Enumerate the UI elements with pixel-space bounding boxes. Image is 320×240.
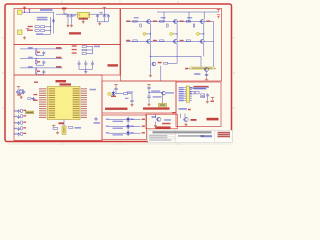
title block dividers bbox=[148, 130, 215, 143]
junction key row 3 bbox=[36, 67, 37, 68]
VCC right stem bbox=[103, 7, 105, 14]
designator row1 cell3 (red) bbox=[180, 21, 184, 22]
red text left of strip (red) bbox=[185, 68, 188, 70]
crystal top link bbox=[18, 89, 24, 91]
Q7 drop bbox=[162, 95, 164, 103]
title red text box row3 bbox=[218, 136, 231, 138]
red text reset 2 (red) bbox=[33, 100, 37, 101]
designator right row 1 (red) bbox=[72, 45, 77, 46]
key row 1 wire bbox=[20, 48, 63, 50]
junction row1 bbox=[50, 26, 51, 27]
strip wire bbox=[188, 67, 216, 69]
block label 数码显示 (red) bbox=[207, 118, 219, 121]
ground crystal bbox=[20, 96, 23, 99]
capacitor brow5 bbox=[17, 132, 20, 136]
IR emit drop2 bbox=[131, 94, 133, 101]
res low wire bbox=[168, 62, 177, 64]
ground caps right bbox=[98, 22, 101, 25]
IR emit wire bbox=[115, 93, 123, 95]
net label brow4 bbox=[14, 128, 17, 129]
designator row1 cell2 (red) bbox=[153, 21, 157, 22]
net label brow3 bbox=[14, 122, 17, 123]
net label KEY3 bbox=[28, 66, 33, 67]
key 2 stem bbox=[35, 59, 37, 61]
C3 lower stem bbox=[71, 18, 73, 23]
title blue text bbox=[201, 135, 213, 137]
capacitor brow4 bbox=[17, 127, 20, 131]
vertical cell2 a bbox=[176, 24, 178, 40]
capacitor C5 bbox=[103, 14, 106, 18]
key switch 2 bbox=[35, 61, 37, 64]
key cap 2 bbox=[84, 62, 87, 66]
connector P1 (DC input) bbox=[18, 10, 23, 14]
designator row2 cell3 (red) bbox=[180, 40, 184, 41]
key cap 3 stem bbox=[91, 66, 93, 70]
label U1 STC89C52 (red) bbox=[60, 83, 72, 85]
title main text 2 bbox=[178, 135, 204, 137]
emitter resistor cell2 bbox=[167, 24, 169, 27]
key-input block outline bbox=[14, 45, 120, 76]
key 2 stem2 bbox=[35, 64, 37, 65]
red dash left of label (red) bbox=[34, 82, 38, 83]
label AMS1117-3.3 (red) bbox=[79, 18, 89, 20]
key cap 3 bbox=[91, 62, 94, 66]
caps bottom rail bbox=[79, 68, 92, 70]
capacitor brow1 bbox=[17, 109, 20, 113]
designator brow5 (red) bbox=[23, 133, 26, 134]
LED D4 bbox=[126, 117, 129, 123]
IR recv stem 2 bbox=[148, 97, 150, 103]
yellow dot cell3 bbox=[196, 32, 199, 35]
net label VIN bbox=[40, 9, 53, 11]
designator row1 cell1 (red) bbox=[126, 21, 130, 22]
designator brow2 (red) bbox=[23, 115, 26, 116]
power-supply block outline bbox=[14, 9, 120, 45]
caps top stub 3 bbox=[91, 60, 93, 61]
C2 lower stem bbox=[67, 18, 69, 23]
MCU inner right pin names bbox=[73, 88, 80, 118]
capacitor C8 bbox=[16, 90, 19, 94]
ground under cell1 vertical bbox=[149, 74, 152, 77]
designator key 2 (red) bbox=[37, 61, 40, 62]
key cap 1 bbox=[78, 62, 81, 66]
capacitor C4 bbox=[96, 14, 99, 18]
buzzer block label (red) bbox=[156, 126, 171, 128]
highlighted ref IR bbox=[159, 103, 167, 107]
display drop 1 bbox=[180, 114, 182, 119]
transistor on strip Q10 bbox=[204, 68, 209, 72]
junction on long vertical bbox=[150, 56, 151, 57]
emitter resistor cell1 bbox=[140, 24, 142, 27]
transistor Q8m bbox=[151, 62, 156, 66]
ground display bbox=[206, 100, 209, 103]
resistor row1 cell1 bbox=[133, 21, 137, 23]
debounce cap 1 bbox=[42, 51, 45, 55]
C2 value text bbox=[64, 13, 68, 14]
IR recv stem bbox=[148, 89, 150, 96]
key cap 2 stem bbox=[85, 66, 87, 70]
power flag near P2 bbox=[26, 29, 30, 31]
net label brow1 bbox=[14, 110, 17, 111]
led row 1 wire bbox=[109, 119, 141, 121]
transistor row1 Q3 bbox=[200, 19, 205, 23]
net label right key 2 (red) bbox=[56, 57, 61, 59]
net text row 3 bbox=[36, 33, 43, 35]
VCC flag top right bbox=[217, 9, 221, 12]
riser 1 bbox=[163, 12, 165, 21]
Y2 to MCU wire bbox=[63, 120, 65, 127]
transistor row1 Q1 bbox=[146, 19, 151, 23]
display block outline bbox=[176, 82, 221, 127]
resistor R2 bbox=[41, 30, 45, 32]
transistor IR recv Q7 bbox=[161, 91, 165, 95]
capacitor on IR recv stem bbox=[147, 87, 150, 88]
ground IR emit bbox=[131, 104, 134, 107]
rail junction 1 bbox=[163, 21, 164, 22]
designator brow1 (red) bbox=[23, 110, 26, 111]
debounce cap 1 stem bbox=[43, 54, 45, 57]
buzzer drop wire bbox=[154, 114, 156, 117]
C4 stem bbox=[97, 18, 99, 21]
title small table text 2 bbox=[149, 135, 167, 136]
caps top stub 2 bbox=[85, 60, 87, 61]
buzzer emitter wire bbox=[154, 121, 156, 124]
ground IR recv bbox=[148, 103, 151, 106]
branch drop bbox=[200, 56, 202, 68]
designator right row 2 (red) bbox=[72, 49, 77, 50]
dot link cell2 bbox=[173, 33, 178, 35]
IR recv junction bbox=[148, 92, 149, 93]
net text IR recv mid bbox=[153, 96, 162, 97]
right bus vertical bbox=[92, 46, 94, 54]
top wire bbox=[157, 11, 219, 13]
wire P1 to rail bbox=[22, 11, 54, 13]
key switch 3 bbox=[35, 70, 37, 73]
title red text box row2 bbox=[218, 134, 231, 136]
diode D1 body bbox=[35, 26, 39, 28]
net text under led row 3 bbox=[113, 134, 124, 135]
IR text under res bbox=[125, 98, 128, 99]
blue text below strip bbox=[194, 73, 200, 75]
power bar under Q10 bbox=[205, 77, 209, 80]
net label right key 3 (red) bbox=[56, 66, 61, 68]
capacitor right of MCU bbox=[95, 117, 98, 121]
cap net text bbox=[94, 122, 101, 124]
ground under C3 bbox=[70, 24, 73, 27]
power flag under MCU bbox=[52, 125, 56, 127]
key switch 1 bbox=[35, 51, 37, 54]
designator led1 (red) bbox=[142, 119, 145, 120]
net label KEY1 bbox=[28, 47, 33, 48]
border zone ticks bbox=[2, 1, 235, 145]
resistor row2 cell1 bbox=[133, 40, 137, 42]
wire right 2 bbox=[86, 49, 92, 51]
IR LED glow bbox=[108, 92, 111, 95]
display connector J1 bbox=[186, 86, 189, 102]
key 3 stem2 bbox=[35, 73, 37, 75]
display header blue text bbox=[194, 88, 207, 90]
cap display stem bbox=[207, 98, 209, 101]
wire right 1 bbox=[86, 46, 92, 48]
row2 rail bbox=[126, 41, 214, 43]
ground buzzer bbox=[154, 124, 157, 127]
resistor under MCU bbox=[69, 127, 73, 129]
riser 2 bbox=[188, 12, 190, 21]
junction on input rail 2 bbox=[29, 12, 30, 13]
capacitor brow3 bbox=[17, 121, 20, 125]
key 3 bottom link bbox=[36, 74, 44, 76]
LED D6 bbox=[126, 130, 129, 136]
resistor right 1 bbox=[82, 46, 86, 48]
block label 按键 (red) bbox=[108, 64, 119, 66]
label 红外对管发射 (red) bbox=[105, 108, 128, 110]
IR emit net text bbox=[127, 91, 134, 92]
capacitor C2 bbox=[67, 14, 70, 18]
key 1 stem2 bbox=[35, 54, 37, 56]
capacitor C6 bbox=[107, 14, 110, 18]
net text row 1 bbox=[37, 17, 48, 19]
resistor IR emit bbox=[123, 93, 127, 95]
VCC flag display bbox=[211, 98, 215, 100]
display header red text bbox=[194, 86, 209, 88]
designator under MCU (red) bbox=[59, 122, 65, 124]
ground below P2 bbox=[23, 36, 26, 39]
IR emit wire2 bbox=[127, 93, 132, 95]
title block panel bbox=[148, 130, 233, 143]
capacitor C3 bbox=[70, 14, 73, 18]
resistor brow5 bbox=[21, 132, 23, 135]
transistor row2 Q5 bbox=[173, 39, 178, 43]
debounce cap 3 bbox=[42, 70, 45, 74]
regulator pin marks bbox=[79, 14, 81, 17]
resistor right 2 bbox=[82, 49, 86, 51]
buzzer value text bbox=[164, 119, 171, 121]
resistor R1 bbox=[41, 26, 45, 28]
ground under MCU bbox=[56, 131, 59, 134]
VCC net text (red) bbox=[62, 8, 67, 10]
designator D1 (red) bbox=[28, 26, 33, 27]
net text IR recv above bbox=[151, 90, 160, 91]
C6 stem bbox=[107, 18, 109, 21]
title small table text 3 bbox=[149, 137, 167, 138]
branch wire right bbox=[150, 55, 201, 57]
key 3 stem bbox=[35, 68, 37, 70]
capacitor C9 bbox=[22, 90, 25, 94]
driver block outline bbox=[121, 9, 222, 82]
key 1 stem bbox=[35, 49, 37, 51]
reset resistor bbox=[28, 98, 31, 100]
designator row2 cell2 (red) bbox=[153, 40, 157, 41]
riser 3 bbox=[203, 12, 205, 19]
designator D2 (red) bbox=[28, 30, 33, 31]
capacitor brow2 bbox=[17, 115, 20, 119]
display pin net labels bbox=[179, 87, 184, 101]
diode D2 body bbox=[35, 30, 39, 32]
designator row1 end (red) bbox=[207, 21, 211, 22]
net label led3 bbox=[106, 132, 109, 133]
net text right of chip bbox=[90, 89, 97, 91]
connector out wire 2 bbox=[189, 88, 206, 90]
junction cell3 bbox=[203, 33, 204, 34]
MCU inner left pin names bbox=[49, 88, 56, 118]
wire right 3 bbox=[86, 53, 92, 55]
junction key row 2 bbox=[36, 58, 37, 59]
designator led3 (red) bbox=[142, 132, 145, 133]
transistor row2 Q4 bbox=[146, 39, 151, 43]
net text under MCU bbox=[75, 127, 82, 129]
designator Y1 (red) bbox=[17, 94, 21, 95]
block label MCU (red) bbox=[56, 80, 67, 82]
wire row2 to bus bbox=[45, 30, 51, 32]
led row 2 wire bbox=[109, 126, 141, 128]
net text right of rows bbox=[94, 46, 100, 48]
capacitor display bbox=[206, 93, 209, 97]
main 5V rail bbox=[56, 13, 109, 15]
transistor row2 Q6 bbox=[200, 39, 205, 43]
designator key 1 (red) bbox=[37, 52, 40, 53]
designator brow3 (red) bbox=[23, 122, 26, 123]
MCU block outline bbox=[14, 75, 102, 140]
resistor brow3 bbox=[21, 121, 23, 124]
ground under C2 bbox=[67, 24, 70, 27]
resistor low bbox=[164, 62, 168, 64]
led row 3 wire bbox=[109, 132, 141, 134]
IR ref text bbox=[160, 104, 166, 106]
net label led2 bbox=[106, 126, 109, 127]
regulator U2 AMS1117 bbox=[78, 12, 90, 17]
label 红外对管接收 (red) bbox=[143, 107, 170, 109]
VCC flag IR emit bbox=[114, 84, 118, 88]
buzzer designator (red) bbox=[162, 123, 171, 125]
vert to block bottom bbox=[160, 66, 162, 81]
key 1 bottom link bbox=[36, 55, 44, 57]
vertical cell3 b bbox=[203, 44, 205, 57]
capacitor marks under Q10 bbox=[205, 74, 208, 75]
display drop 2 bbox=[184, 114, 186, 118]
VCC flag crystal bbox=[17, 87, 21, 89]
red marks under VCC bbox=[217, 15, 220, 19]
net label right key 1 (red) bbox=[56, 47, 61, 49]
value text led2 bbox=[131, 125, 134, 126]
Q10 drop bbox=[206, 72, 208, 77]
IR emitter/receiver block outline bbox=[102, 81, 176, 113]
red text near reset (red) bbox=[33, 94, 37, 95]
designator IR emit (red) bbox=[111, 96, 116, 97]
key row 3 wire bbox=[20, 67, 63, 69]
net text under led row 1 bbox=[113, 121, 124, 122]
capacitor before ground IR bbox=[130, 100, 133, 101]
debounce cap 2 bbox=[42, 60, 45, 64]
blue text display bottom bbox=[179, 108, 188, 110]
LED D5 bbox=[126, 124, 129, 130]
connector out wire 1 bbox=[189, 86, 209, 88]
vertical wire from rail bbox=[53, 12, 55, 33]
key row 2 wire bbox=[20, 58, 63, 60]
buzzer resistor bbox=[152, 116, 156, 118]
debounce cap 2 stem bbox=[43, 64, 45, 67]
dot link cell1 bbox=[146, 33, 151, 35]
designator right row 3 (red) bbox=[72, 52, 77, 53]
U2 ground stem bbox=[82, 18, 84, 21]
wire row1 to bus bbox=[45, 26, 51, 28]
IR emit stem lower bbox=[115, 90, 117, 94]
rail junction 2 bbox=[188, 21, 189, 22]
net text row1 cell2 bbox=[161, 17, 166, 18]
buzzer transistor Q9 bbox=[156, 117, 161, 121]
value text led1 bbox=[131, 119, 134, 120]
crystal Y2 below MCU bbox=[62, 126, 66, 134]
junction row2 bbox=[50, 30, 51, 31]
resistor right 3 bbox=[82, 53, 86, 55]
debounce cap 3 stem bbox=[43, 73, 45, 76]
vertical bus bbox=[50, 17, 52, 34]
C5 stem bbox=[103, 18, 105, 21]
sheet border frame bbox=[5, 4, 232, 142]
strip text bbox=[192, 68, 213, 69]
ground under U2 bbox=[82, 21, 85, 24]
capacitor on IR emit stem bbox=[114, 89, 117, 90]
designator key 3 (red) bbox=[37, 71, 40, 72]
transistor display Q8 bbox=[183, 117, 188, 121]
regulator pin marks right bbox=[88, 14, 89, 17]
vertical cell2 b bbox=[176, 44, 178, 64]
resistor row1 cell2 bbox=[160, 21, 164, 23]
C3 value text bbox=[73, 15, 76, 16]
reset capacitor bbox=[32, 97, 35, 101]
highlighted net strip bbox=[190, 67, 214, 70]
fuse/flag F1 (red) bbox=[23, 8, 26, 12]
resistor row2 cell3 bbox=[186, 40, 190, 42]
designator brow4 (red) bbox=[23, 127, 26, 128]
net label brow5 bbox=[14, 133, 17, 134]
net label KEY2 bbox=[28, 57, 33, 58]
junction cell1 bbox=[150, 33, 151, 34]
C5 value text bbox=[100, 12, 103, 13]
net label led1 bbox=[106, 119, 109, 120]
crystal bottom link bbox=[18, 93, 24, 95]
IR recv wire bbox=[149, 91, 163, 93]
title header text row bbox=[153, 131, 212, 133]
resistor brow1 bbox=[21, 109, 23, 112]
VCC flag buzzer bbox=[172, 112, 176, 114]
Y2 pin marks bbox=[63, 127, 65, 133]
VCC flag IR recv bbox=[147, 85, 151, 88]
resistor row1 cell3 bbox=[186, 21, 190, 23]
component cluster under MCU left bbox=[53, 127, 57, 129]
emitter resistor cell3 bbox=[193, 24, 195, 27]
net text row1 cell3 bbox=[187, 17, 192, 18]
wire bottom row bbox=[43, 33, 51, 35]
net text IR recv right bbox=[166, 92, 174, 93]
designator row2 cell1 (red) bbox=[126, 40, 130, 41]
key cap 1 stem bbox=[78, 66, 80, 70]
transistor row1 Q2 bbox=[173, 19, 178, 23]
value text led3 bbox=[131, 132, 134, 133]
buzzer block outline bbox=[146, 114, 177, 129]
row1 rail bbox=[126, 20, 214, 22]
designator display (red) bbox=[191, 119, 197, 121]
resistor brow2 bbox=[21, 115, 23, 118]
vertical cell3 a bbox=[203, 24, 205, 40]
vertical cell1 a bbox=[149, 24, 151, 40]
VCC flag right bbox=[103, 6, 107, 8]
yellow dot cell2 bbox=[170, 32, 173, 35]
LED indicator block outline bbox=[102, 115, 147, 139]
resistor brow4 bbox=[21, 127, 23, 130]
net label brow2 bbox=[14, 116, 17, 117]
resistor row2 cell2 bbox=[160, 40, 164, 42]
vertical cell1 b bbox=[149, 44, 151, 74]
